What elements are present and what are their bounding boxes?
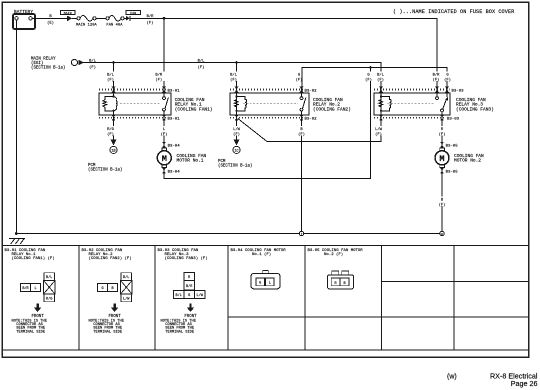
svg-text:L: L (34, 287, 36, 291)
svg-text:B/L: B/L (107, 73, 115, 78)
connector view B3-02 (98, 273, 133, 302)
svg-text:L/W: L/W (197, 293, 204, 298)
wire label B/R relay1 drop (153, 72, 165, 82)
wire label L (160, 126, 169, 136)
svg-text:B/L: B/L (377, 73, 385, 78)
PCM arrow 1 (110, 139, 116, 145)
wire label L/W (231, 126, 243, 136)
cooling fan motor No.2 M2 (440, 148, 445, 151)
cooling fan relay No.1 box U1 (99, 93, 171, 115)
svg-text:B/L: B/L (123, 275, 129, 280)
svg-text:G: G (101, 287, 103, 291)
junction B/L relay2 (235, 61, 238, 64)
connector symbol (in-line) (66, 16, 68, 21)
fuse name box (FAN) (126, 10, 140, 14)
ground point relay2 (299, 231, 303, 235)
wire B/R down to relay1 switch (163, 18, 165, 89)
fuse name box (MAIN) (61, 10, 75, 14)
wire relay2 coil to PCM (236, 118, 238, 140)
svg-text:(F): (F) (433, 77, 440, 82)
svg-text:(F): (F) (233, 132, 240, 137)
svg-text:B/L: B/L (46, 275, 52, 280)
ground point motor2 (440, 231, 444, 235)
relay row top B3-03 (374, 89, 450, 91)
svg-text:(F): (F) (230, 77, 237, 82)
svg-text:B/L: B/L (89, 58, 97, 63)
svg-text:Page 26: Page 26 (511, 379, 538, 388)
svg-text:No.1 (F): No.1 (F) (252, 252, 271, 257)
wire B/R down to relay3 switch (436, 18, 438, 89)
relay1 switch (163, 97, 166, 100)
svg-text:B/R: B/R (433, 73, 441, 78)
wire G line relay2 switch to relay3 (302, 68, 447, 90)
svg-text:(SECTION B-1a): (SECTION B-1a) (218, 164, 252, 169)
svg-text:(F): (F) (365, 77, 372, 82)
wire relay2 switch to ground (301, 118, 303, 234)
cooling fan relay No.3 box U3 (374, 93, 450, 115)
svg-text:(EGI): (EGI) (31, 61, 43, 66)
relay row bottom B3-03 (374, 117, 445, 119)
svg-text:B/R: B/R (147, 14, 155, 19)
svg-text:(F): (F) (198, 65, 205, 70)
wire label B/L (F) on bus mid (196, 58, 207, 62)
ground bus wire (16, 233, 442, 235)
fuse MAIN 120A (77, 17, 80, 20)
svg-text:(COOLING FAN2) (F): (COOLING FAN2) (F) (89, 256, 132, 261)
relay2 mechanical link (243, 102, 298, 104)
junction B/L relay1 (112, 61, 115, 64)
wire label L/W relay3 (373, 126, 385, 136)
svg-text:B3-04: B3-04 (168, 144, 181, 148)
svg-text:TERMINAL SIDE: TERMINAL SIDE (93, 330, 123, 334)
relay row bottom B3-02 (230, 117, 303, 119)
table bottom border (2, 349, 529, 351)
svg-text:(F): (F) (161, 132, 168, 137)
svg-text:MAIN RELAY: MAIN RELAY (31, 57, 56, 61)
svg-text:FAN 40A: FAN 40A (106, 24, 123, 28)
svg-text:L/W: L/W (233, 127, 241, 132)
relay2 switch (300, 97, 303, 100)
relay2 coil (234, 90, 246, 118)
svg-text:(F): (F) (155, 77, 162, 82)
wire motor2 to ground (441, 168, 443, 234)
relay3 pin markers (379, 87, 449, 121)
svg-text:(COOLING FAN1): (COOLING FAN1) (175, 106, 213, 112)
svg-text:B3-04: B3-04 (168, 170, 181, 174)
connector B3-05 top (440, 142, 444, 148)
svg-text:FRONT: FRONT (31, 315, 44, 319)
svg-text:( )...NAME INDICATED ON FUSE B: ( )...NAME INDICATED ON FUSE BOX COVER (393, 9, 514, 15)
svg-text:(F): (F) (107, 77, 114, 82)
connector view B3-03 (174, 273, 206, 299)
svg-text:B3-03: B3-03 (452, 89, 465, 93)
wire label B relay2 (297, 126, 306, 136)
svg-text:FRONT: FRONT (184, 315, 197, 319)
wire (96, 17, 106, 19)
svg-text:L: L (269, 282, 271, 286)
cooling fan motor No.1 M1 (162, 148, 167, 151)
svg-text:PCM: PCM (218, 160, 226, 164)
svg-text:R/G: R/G (107, 127, 115, 132)
svg-text:TERMINAL SIDE: TERMINAL SIDE (16, 330, 46, 334)
relay3 mechanical link (388, 102, 434, 104)
svg-text:B/L: B/L (198, 58, 206, 63)
PCM arrow 2 (233, 139, 239, 145)
wire battery to fuses (35, 17, 67, 19)
svg-text:(F): (F) (147, 21, 154, 26)
junction G branch (369, 66, 372, 69)
svg-text:R/G: R/G (46, 297, 52, 302)
svg-text:B3-05: B3-05 (446, 144, 459, 148)
junction B/R to relay1 (163, 17, 166, 20)
connector view B3-05 (332, 271, 339, 275)
wire label R/G (105, 126, 116, 136)
wire G branch down to motor1 return (370, 68, 372, 179)
wire label G branch (365, 72, 373, 82)
svg-text:1B: 1B (111, 149, 115, 153)
svg-text:B3-03: B3-03 (447, 118, 460, 122)
relay1 pin markers (112, 87, 166, 121)
wire motor1 return to G branch (164, 168, 371, 179)
svg-text:(COOLING FAN3) (F): (COOLING FAN3) (F) (165, 256, 208, 261)
wire relay1 coil to PCM (113, 118, 115, 140)
wire label B/L relay3 drop (375, 72, 386, 82)
svg-text:(F): (F) (107, 132, 114, 137)
svg-text:(F): (F) (444, 77, 451, 82)
cooling fan relay No.2 box U2 (230, 93, 309, 115)
connector B3-04 bottom (162, 168, 166, 174)
svg-text:MOTOR No.2: MOTOR No.2 (454, 157, 481, 163)
chassis ground symbol (10, 239, 25, 244)
svg-text:(COOLING FAN1) (F): (COOLING FAN1) (F) (12, 256, 55, 261)
svg-text:MOTOR No.1: MOTOR No.1 (177, 157, 204, 163)
svg-text:B/R: B/R (22, 286, 29, 291)
svg-text:G: G (188, 294, 190, 298)
svg-text:FAN: FAN (130, 12, 136, 15)
wire label B/L relay2 drop (228, 72, 239, 82)
svg-text:B/L: B/L (230, 73, 238, 78)
relay row bottom B3-01 (99, 117, 166, 119)
relay row top B3-02 (230, 89, 303, 91)
connector B3-04 top (162, 142, 166, 148)
svg-text:(F): (F) (375, 132, 382, 137)
svg-text:B3-05: B3-05 (446, 170, 459, 174)
connector symbol (in-line) (126, 16, 130, 21)
wire label B/L relay1 drop (105, 72, 116, 82)
wire B/L bus (84, 63, 381, 90)
svg-text:B: B (344, 282, 346, 286)
wire label R (438, 126, 447, 136)
wire label B motor2 (438, 197, 447, 207)
svg-text:(SECTION B-1a): (SECTION B-1a) (88, 168, 122, 173)
svg-text:FRONT: FRONT (108, 315, 121, 319)
svg-text:(COOLING FAN3): (COOLING FAN3) (456, 106, 494, 112)
svg-text:G: G (259, 282, 261, 286)
svg-text:M: M (162, 154, 167, 164)
wire B/L drop relay2 coil (236, 63, 238, 90)
svg-text:(F): (F) (439, 203, 446, 208)
svg-text:MAIN: MAIN (64, 12, 72, 15)
svg-text:B/R: B/R (186, 284, 193, 289)
table top border (2, 245, 529, 247)
svg-text:(F): (F) (296, 77, 303, 82)
connector view B3-01 (21, 273, 56, 302)
svg-text:B3-01: B3-01 (168, 118, 181, 122)
relay3 coil (379, 90, 391, 118)
svg-text:B/R: B/R (155, 73, 163, 78)
table column lines (79, 246, 529, 351)
svg-text:MAIN 120A: MAIN 120A (76, 24, 97, 28)
wire label B/R (F) (144, 13, 156, 17)
relay2 pin markers (235, 87, 304, 121)
relay1 mechanical link (120, 102, 161, 104)
svg-text:B3-02: B3-02 (305, 118, 318, 122)
front arrow B3-02 (113, 304, 115, 308)
svg-text:(SECTION B-1a): (SECTION B-1a) (31, 66, 65, 71)
svg-text:(COOLING FAN2): (COOLING FAN2) (313, 106, 351, 112)
svg-text:(F): (F) (439, 132, 446, 137)
svg-text:L/W: L/W (123, 297, 130, 302)
front arrow B3-03 (189, 304, 191, 308)
wire B/R feed to right (124, 17, 126, 19)
wire relay3 common to motor2 (441, 118, 443, 151)
wire relay3 coil joining relay2 coil (L/W) (238, 118, 381, 142)
relay1 coil (103, 90, 117, 118)
svg-text:M: M (439, 154, 444, 164)
front arrow B3-01 (36, 304, 38, 308)
svg-text:1C: 1C (234, 149, 238, 153)
svg-text:(F): (F) (377, 77, 384, 82)
junction battery ground (15, 232, 18, 235)
svg-text:B/L: B/L (176, 293, 182, 298)
svg-text:(w): (w) (447, 373, 457, 380)
wire relay1 switch to motor1 (163, 118, 165, 151)
svg-text:L/W: L/W (375, 127, 383, 132)
relay row top B3-01 (99, 89, 166, 91)
svg-text:B: B (111, 287, 113, 291)
connector B3-05 bottom (440, 168, 444, 174)
svg-text:(F): (F) (298, 132, 305, 137)
wire battery negative down (15, 20, 17, 234)
svg-text:TERMINAL SIDE: TERMINAL SIDE (165, 330, 195, 334)
wire (72, 17, 77, 19)
wire label B/L (F) on bus (87, 58, 98, 62)
svg-text:(F): (F) (89, 65, 96, 70)
svg-text:(E): (E) (47, 21, 54, 26)
connector view B3-04 (263, 270, 269, 273)
wire label G relay3 (444, 72, 452, 82)
wire label B/R relay3 (431, 72, 443, 82)
fuse FAN 40A (106, 17, 109, 20)
wire B/L drop relay1 coil (113, 63, 115, 90)
svg-text:PCM: PCM (88, 164, 96, 168)
relay3 changeover switch (436, 97, 439, 100)
svg-text:No.2 (F): No.2 (F) (324, 252, 343, 257)
